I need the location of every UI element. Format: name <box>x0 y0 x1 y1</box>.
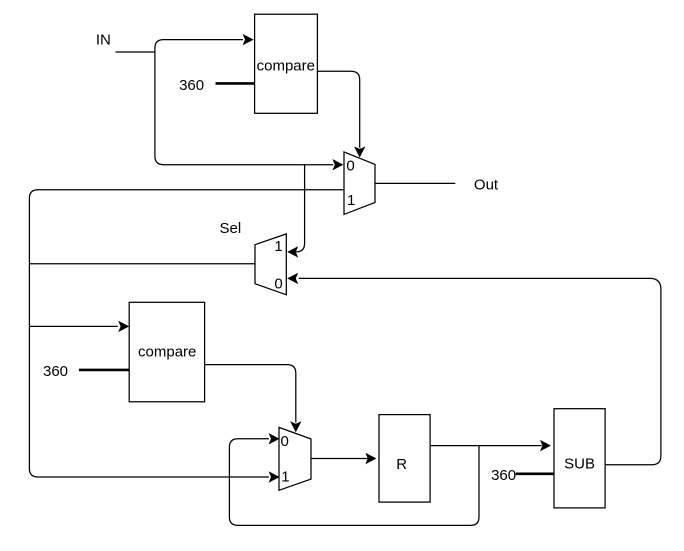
svg-text:compare: compare <box>257 58 315 75</box>
svg-text:0: 0 <box>274 276 282 293</box>
svg-text:1: 1 <box>281 469 289 486</box>
mux M3 <box>279 427 311 490</box>
wire: left rail up to mux M1 input 1 <box>29 190 344 264</box>
value 360 stub into SUB <box>516 472 554 475</box>
wire: IN stub to node A <box>116 51 155 53</box>
wire: left rail down to mux M3 input 1 <box>29 264 269 477</box>
svg-text:R: R <box>396 456 407 473</box>
wire: rail branch to compare U2 input <box>29 325 117 327</box>
svg-text:compare: compare <box>138 343 196 360</box>
svg-text:SUB: SUB <box>564 456 595 473</box>
wire: SUB output feedback to mux M2 input 0 <box>299 278 661 464</box>
svg-text:1: 1 <box>274 238 282 255</box>
wire: branch node B down to mux M2 input 1 <box>296 165 305 252</box>
svg-text:1: 1 <box>347 192 355 209</box>
svg-text:0: 0 <box>281 433 289 450</box>
wire: node A up to compare U1 input <box>155 40 243 52</box>
wire: R output to SUB input <box>430 445 541 447</box>
svg-text:IN: IN <box>96 31 111 48</box>
svg-text:360: 360 <box>43 363 68 380</box>
svg-text:0: 0 <box>346 158 354 175</box>
wire: mux M3 output to register R <box>311 458 369 460</box>
value 360 stub into U1 <box>216 82 255 85</box>
wire: U2 output to mux M3 top select <box>205 365 296 423</box>
svg-text:360: 360 <box>491 467 516 484</box>
svg-text:Out: Out <box>474 177 499 194</box>
wire: loop from node C down and back to mux M3 input 0 <box>229 439 479 526</box>
mux M2 <box>255 234 286 295</box>
mux M1 <box>344 152 375 215</box>
compare U2 <box>129 302 204 402</box>
subtractor SUB <box>554 409 605 508</box>
svg-text:360: 360 <box>179 77 204 94</box>
wire: mux M2 output to left rail <box>29 263 255 265</box>
wire: mux M1 output to Out <box>375 182 455 184</box>
wire: node A down to mux M1 input 0 <box>155 52 333 165</box>
wire: U1 output to mux M1 top select <box>317 71 359 148</box>
register R <box>379 415 430 503</box>
value 360 stub into U2 <box>79 369 129 372</box>
svg-text:Sel: Sel <box>220 220 242 237</box>
compare U1 <box>255 14 318 113</box>
